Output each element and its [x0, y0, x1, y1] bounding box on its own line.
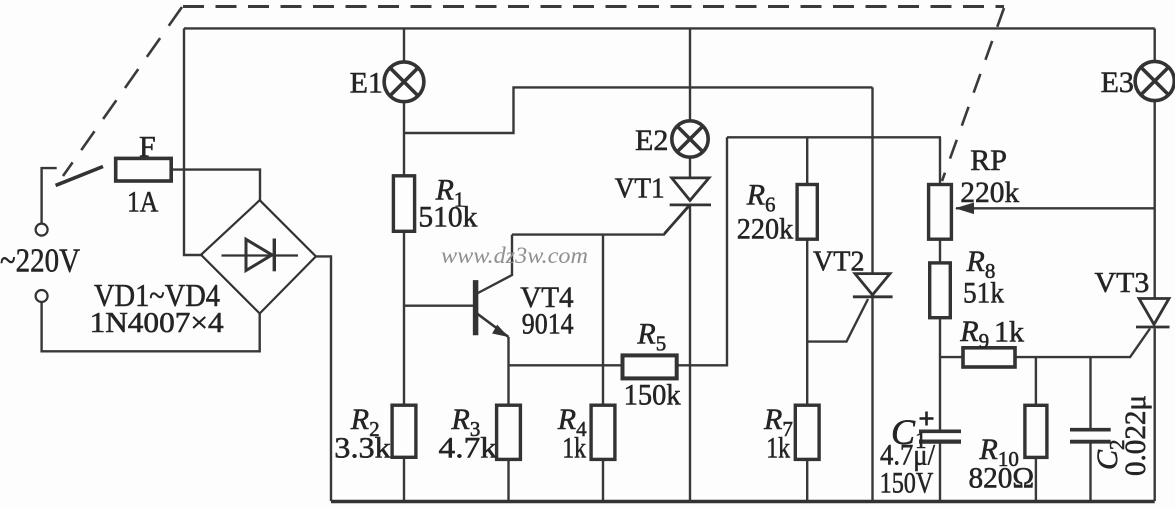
svg-text:RP: RP	[970, 144, 1007, 177]
svg-text:F: F	[139, 131, 156, 164]
svg-text:1k: 1k	[994, 315, 1024, 348]
svg-text:3.3k: 3.3k	[334, 431, 391, 464]
svg-text:VT3: VT3	[1095, 268, 1150, 299]
svg-text:E3: E3	[1101, 66, 1134, 99]
svg-text:1k: 1k	[562, 431, 586, 464]
svg-text:VT1: VT1	[615, 174, 665, 205]
svg-text:51k: 51k	[963, 277, 1004, 310]
svg-text:9014: 9014	[522, 308, 574, 341]
svg-text:150V: 150V	[880, 467, 934, 500]
svg-text:1N4007×4: 1N4007×4	[90, 308, 224, 339]
svg-text:820Ω: 820Ω	[969, 462, 1035, 495]
svg-text:1k: 1k	[766, 431, 790, 464]
svg-text:4.7k: 4.7k	[439, 431, 498, 464]
svg-text:220k: 220k	[737, 213, 794, 246]
svg-text:220k: 220k	[960, 176, 1019, 209]
svg-text:510k: 510k	[418, 200, 477, 233]
svg-text:0.022μ: 0.022μ	[1119, 395, 1152, 476]
svg-text:E2: E2	[635, 124, 668, 157]
svg-text:1A: 1A	[127, 186, 159, 219]
svg-text:150k: 150k	[624, 379, 681, 412]
svg-text:~220V: ~220V	[0, 243, 80, 280]
svg-text:VT2: VT2	[813, 247, 865, 278]
svg-text:www.dz3w.com: www.dz3w.com	[441, 243, 588, 269]
svg-text:E1: E1	[350, 67, 383, 100]
